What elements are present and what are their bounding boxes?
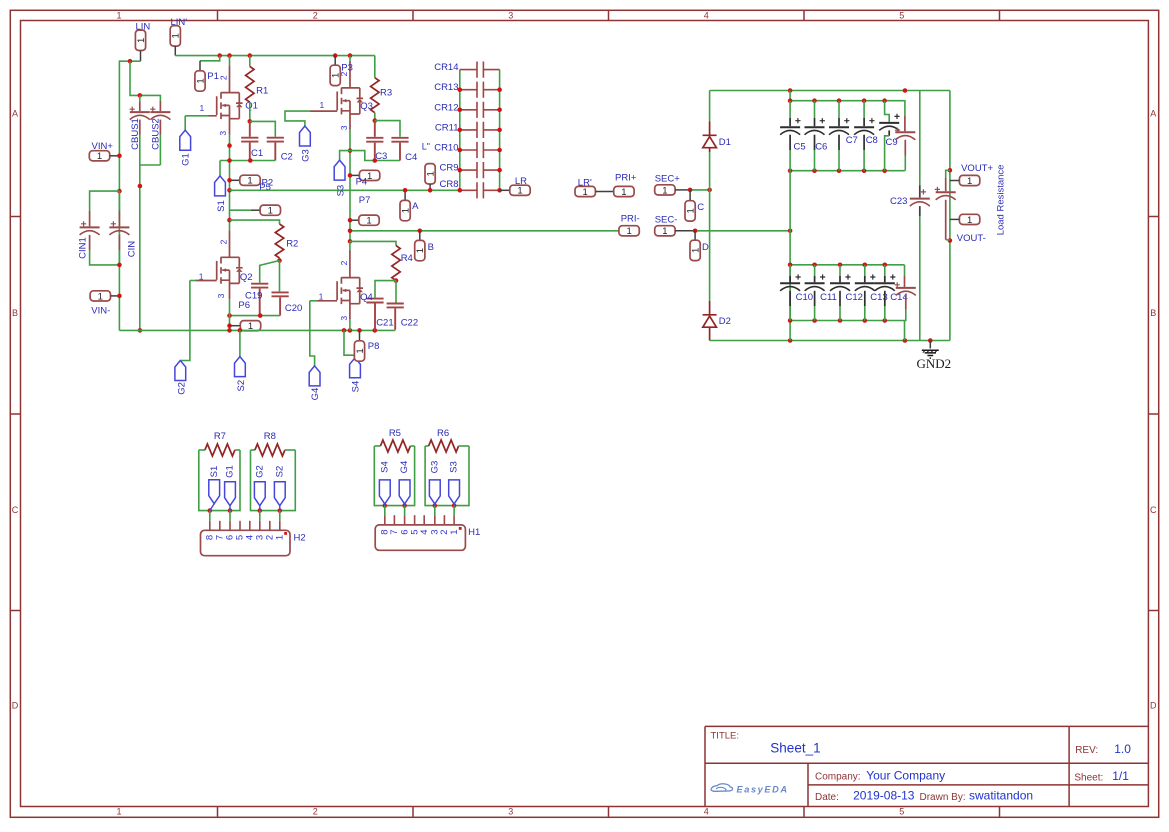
port LR' [575, 186, 595, 198]
svg-text:G4: G4 [399, 461, 410, 474]
wire right rail [949, 91, 951, 341]
junction [342, 328, 347, 333]
junction [278, 508, 283, 513]
svg-text:1: 1 [320, 100, 325, 110]
wire C3 C4 bottom [350, 151, 400, 161]
junction [452, 503, 457, 508]
wire [251, 449, 255, 451]
svg-text:C2: C2 [281, 152, 293, 163]
svg-text:A: A [12, 109, 18, 119]
junction [227, 178, 232, 183]
junction [402, 503, 407, 508]
net flag G1 [184, 116, 186, 130]
svg-text:S2: S2 [236, 380, 247, 392]
wire rectifier mid [709, 190, 711, 301]
net flag G3 [300, 126, 311, 146]
junction [458, 188, 463, 193]
net flag G3b [429, 480, 440, 504]
capacitor C2 [250, 121, 275, 136]
junction [348, 148, 353, 153]
svg-text:Load Resistance: Load Resistance [996, 165, 1007, 236]
junction [348, 229, 353, 234]
wire P5 net [230, 189, 460, 191]
capacitor load [946, 170, 950, 178]
wire gate Q3 [285, 111, 311, 126]
junction [788, 88, 793, 93]
junction [497, 188, 502, 193]
junction [228, 508, 233, 513]
svg-text:1: 1 [98, 291, 103, 302]
port P8 [359, 330, 361, 340]
port L" [425, 164, 437, 184]
junction [882, 98, 887, 103]
svg-text:Sheet_1: Sheet_1 [770, 740, 820, 755]
wire Q3 source [349, 130, 351, 242]
svg-text:C6: C6 [815, 142, 827, 153]
net flag G2b [254, 482, 265, 506]
port SEC+ [655, 185, 675, 197]
capacitor C1 [249, 121, 251, 136]
junction [403, 188, 408, 193]
svg-text:P1: P1 [207, 71, 219, 82]
svg-text:S1: S1 [209, 466, 220, 478]
junction [227, 158, 232, 163]
port LIN [135, 30, 147, 50]
junction [373, 158, 378, 163]
svg-text:EasyEDA: EasyEDA [737, 785, 789, 795]
junction [788, 98, 793, 103]
svg-text:1: 1 [662, 226, 667, 237]
svg-text:1: 1 [449, 529, 460, 534]
junction [227, 188, 232, 193]
svg-text:P6: P6 [238, 300, 250, 311]
junction [458, 108, 463, 113]
svg-text:S3: S3 [336, 185, 347, 197]
svg-text:2: 2 [313, 807, 318, 817]
svg-text:Company:: Company: [815, 771, 861, 782]
junction [227, 218, 232, 223]
wire CR stack left rail [459, 70, 461, 191]
svg-text:1: 1 [401, 208, 412, 213]
capacitor C8 [863, 101, 865, 118]
svg-text:1: 1 [319, 292, 324, 302]
svg-text:1: 1 [367, 171, 372, 182]
svg-text:C21: C21 [376, 317, 393, 328]
port P3 [334, 56, 336, 66]
junction [948, 168, 953, 173]
wire CBUS join [140, 164, 161, 166]
svg-text:1: 1 [366, 216, 371, 227]
svg-text:CR10: CR10 [434, 143, 458, 154]
capacitor C19 [260, 261, 280, 283]
wire PRI- net [350, 230, 619, 232]
svg-text:C4: C4 [405, 152, 417, 163]
pin 1 [453, 506, 455, 516]
junction [373, 118, 378, 123]
svg-text:1: 1 [195, 78, 206, 83]
svg-text:1: 1 [686, 208, 697, 213]
svg-text:VIN-: VIN- [91, 306, 110, 317]
svg-text:D: D [12, 701, 19, 711]
junction [248, 158, 253, 163]
svg-text:Q1: Q1 [245, 101, 258, 112]
junction [238, 328, 243, 333]
junction [138, 184, 143, 189]
junction [227, 313, 232, 318]
junction [208, 508, 213, 513]
junction [693, 229, 698, 234]
svg-text:1: 1 [331, 73, 342, 78]
svg-text:1: 1 [621, 187, 626, 198]
junction [948, 238, 953, 243]
junction [863, 318, 868, 323]
header H2 [201, 530, 291, 555]
svg-text:2019-08-13: 2019-08-13 [853, 788, 915, 802]
net flag S2 [239, 330, 241, 356]
pin 4 [249, 521, 251, 531]
junction [688, 188, 693, 193]
pin 6 [404, 506, 406, 516]
port P6 [230, 325, 241, 327]
svg-text:S4: S4 [350, 381, 361, 393]
svg-text:S3: S3 [449, 461, 460, 473]
capacitor CR8 [460, 189, 477, 191]
wire Q4 source [349, 320, 351, 331]
svg-text:B: B [1150, 308, 1156, 318]
wire [425, 445, 429, 447]
junction [497, 108, 502, 113]
svg-text:S2: S2 [274, 466, 285, 478]
svg-text:G4: G4 [310, 388, 321, 401]
svg-text:1: 1 [116, 807, 121, 817]
svg-text:3: 3 [508, 10, 513, 20]
svg-text:Q2: Q2 [240, 272, 253, 283]
net flag G4 [310, 301, 315, 366]
port P7 [350, 219, 359, 221]
junction [227, 143, 232, 148]
capacitor C14 [884, 265, 886, 276]
port P2 [230, 179, 240, 181]
junction [428, 188, 433, 193]
junction [928, 338, 933, 343]
svg-text:1: 1 [268, 206, 273, 217]
svg-text:L": L" [422, 142, 430, 152]
net flag S4 [344, 330, 355, 357]
wire SEC- to cap midpoint [695, 230, 790, 232]
svg-text:G2: G2 [254, 465, 265, 478]
junction [788, 263, 793, 268]
wire CR stack right rail [499, 70, 501, 191]
svg-text:D: D [1150, 701, 1157, 711]
svg-text:G2: G2 [176, 382, 187, 395]
capacitor C20 [279, 261, 281, 292]
capacitor C3 [374, 121, 376, 137]
junction [117, 189, 122, 194]
net flag G2 [180, 281, 190, 361]
junction [837, 168, 842, 173]
junction [383, 503, 388, 508]
svg-text:CIN1: CIN1 [78, 237, 89, 259]
capacitor C13 [864, 265, 866, 276]
pin 5 [414, 515, 416, 525]
svg-text:Drawn By:: Drawn By: [920, 792, 966, 803]
ground GND2 [929, 341, 931, 349]
port VIN+ [89, 151, 109, 163]
title block [705, 726, 1148, 806]
svg-text:G3: G3 [429, 461, 440, 474]
junction [227, 53, 232, 58]
svg-text:VOUT-: VOUT- [957, 233, 986, 244]
junction [788, 318, 793, 323]
junction [117, 154, 122, 159]
junction [838, 318, 843, 323]
pin 2 [443, 515, 445, 525]
svg-text:5: 5 [899, 807, 904, 817]
capacitor C12 [839, 265, 841, 276]
svg-text:B: B [12, 308, 18, 318]
svg-text:3: 3 [508, 807, 513, 817]
svg-text:C11: C11 [820, 292, 837, 303]
wire gate Q4 [310, 300, 318, 302]
svg-text:4: 4 [704, 807, 709, 817]
wire [199, 449, 205, 451]
svg-text:C1: C1 [251, 148, 263, 159]
junction [138, 328, 143, 333]
svg-text:R5: R5 [389, 428, 401, 439]
wire snubber bottom [230, 315, 281, 317]
capacitor C23 [919, 91, 921, 186]
junction [458, 128, 463, 133]
svg-text:4: 4 [704, 10, 709, 20]
svg-text:1: 1 [662, 185, 667, 196]
svg-text:G1: G1 [225, 465, 236, 478]
junction [458, 168, 463, 173]
svg-text:P3: P3 [341, 62, 353, 73]
capacitor C10 [789, 265, 791, 276]
junction [497, 168, 502, 173]
svg-text:H1: H1 [468, 527, 480, 538]
svg-text:R6: R6 [437, 428, 449, 439]
svg-text:1: 1 [97, 151, 102, 162]
svg-text:1: 1 [275, 535, 286, 540]
junction [812, 318, 817, 323]
wire Q2 source [229, 299, 231, 330]
svg-text:3: 3 [339, 125, 349, 130]
transistor Q1 [229, 56, 231, 66]
capacitor CIN [118, 191, 120, 211]
junction [277, 258, 282, 263]
junction [433, 503, 438, 508]
svg-text:D: D [702, 242, 709, 253]
svg-text:CR9: CR9 [439, 163, 458, 174]
pin 5 [239, 521, 241, 531]
resistor R2 [230, 220, 280, 224]
capacitor CA2 [904, 265, 906, 276]
svg-text:P8: P8 [368, 341, 380, 352]
junction [128, 59, 133, 64]
port P1 [200, 56, 220, 61]
junction [217, 53, 222, 58]
svg-text:1: 1 [415, 248, 426, 253]
junction [863, 263, 868, 268]
svg-text:1: 1 [247, 176, 252, 187]
net flag S1 [219, 161, 221, 176]
wire lower bank to rail [904, 321, 906, 341]
wire [374, 445, 380, 447]
svg-text:REV:: REV: [1075, 745, 1098, 756]
pin 8 [384, 506, 386, 516]
svg-text:TITLE:: TITLE: [711, 731, 740, 742]
resistor R3 [374, 56, 376, 78]
svg-text:Your Company: Your Company [866, 768, 945, 782]
svg-text:1: 1 [200, 103, 205, 113]
svg-text:P5: P5 [259, 182, 271, 193]
transistor Q3 [349, 56, 351, 61]
svg-text:1: 1 [116, 10, 121, 20]
junction [258, 508, 263, 513]
svg-text:1: 1 [199, 272, 204, 282]
svg-text:VOUT+: VOUT+ [961, 163, 993, 174]
svg-text:R3: R3 [380, 88, 392, 99]
junction [812, 98, 817, 103]
junction [788, 168, 793, 173]
junction [838, 263, 843, 268]
svg-text:C: C [1150, 505, 1157, 515]
junction [837, 98, 842, 103]
pin 3 [434, 506, 436, 516]
pin 7 [393, 515, 395, 525]
svg-text:R8: R8 [264, 431, 276, 442]
svg-text:LIN': LIN' [171, 17, 188, 28]
wire top rail [175, 55, 374, 57]
svg-text:4: 4 [419, 529, 430, 534]
junction [707, 188, 712, 193]
junction [348, 173, 353, 178]
svg-text:Date:: Date: [815, 792, 839, 803]
junction [348, 53, 353, 58]
junction [227, 323, 232, 328]
wire output top rail [710, 90, 950, 92]
capacitor CR12 [460, 109, 477, 111]
junction [357, 328, 362, 333]
junction [862, 98, 867, 103]
capacitor C9 [885, 101, 890, 122]
capacitor C7 [838, 101, 840, 118]
pin 4 [423, 515, 425, 525]
net flag S1b [210, 504, 214, 511]
wire SEC+ to rectifier [690, 189, 710, 191]
port LR [500, 189, 510, 191]
logo EasyEDA [711, 784, 733, 792]
net flag S4b [379, 480, 390, 504]
port D [694, 231, 696, 240]
junction [227, 328, 232, 333]
svg-text:2: 2 [313, 10, 318, 20]
junction [248, 53, 253, 58]
port B [419, 231, 421, 241]
port SEC- [655, 226, 675, 238]
wire gate Q2 [190, 280, 197, 282]
svg-text:5: 5 [899, 10, 904, 20]
svg-text:C7: C7 [846, 135, 858, 146]
junction [117, 294, 122, 299]
svg-text:GND2: GND2 [917, 356, 952, 371]
capacitor C21 [375, 281, 396, 298]
svg-text:CBUS1: CBUS1 [130, 118, 141, 150]
port VOUT- [959, 214, 979, 226]
junction [418, 229, 423, 234]
net flag G4b [399, 480, 410, 504]
pin 2 [269, 521, 271, 531]
capacitor CR9 [460, 169, 477, 171]
wire output bottom rail [710, 340, 950, 342]
svg-text:SEC+: SEC+ [655, 173, 681, 184]
svg-text:C22: C22 [401, 317, 418, 328]
svg-text:PRI-: PRI- [621, 214, 640, 225]
capacitor C11 [814, 265, 816, 276]
capacitor CR14 [460, 69, 477, 71]
svg-text:R2: R2 [286, 239, 298, 250]
capacitor C5 [789, 101, 791, 118]
svg-text:1: 1 [355, 348, 366, 353]
wire gate Q1 [185, 115, 208, 117]
svg-text:swatitandon: swatitandon [969, 788, 1033, 802]
net flag S3b [449, 480, 460, 504]
svg-text:C12: C12 [846, 292, 863, 303]
diode D2 [709, 301, 711, 315]
svg-text:Q4: Q4 [360, 292, 373, 303]
junction [883, 263, 888, 268]
svg-text:3: 3 [218, 131, 228, 136]
svg-text:R7: R7 [214, 431, 226, 442]
wire bottom rail VIN- [119, 329, 394, 331]
svg-text:VIN+: VIN+ [92, 141, 114, 152]
svg-text:P7: P7 [359, 195, 371, 206]
port LIN' [170, 26, 182, 46]
svg-text:D1: D1 [719, 137, 731, 148]
junction [138, 93, 143, 98]
junction [788, 338, 793, 343]
junction [333, 53, 338, 58]
port VOUT+ [959, 175, 979, 187]
svg-text:1/1: 1/1 [1112, 769, 1129, 783]
svg-text:H2: H2 [294, 532, 306, 543]
resistor R1 [249, 56, 251, 67]
junction [348, 218, 353, 223]
svg-text:CR8: CR8 [439, 179, 458, 190]
junction [812, 168, 817, 173]
port PRI- [619, 226, 639, 238]
svg-text:1: 1 [136, 38, 147, 43]
svg-text:1: 1 [517, 186, 522, 197]
svg-text:A: A [1150, 109, 1156, 119]
wire center column [789, 171, 791, 341]
pin 8 [209, 511, 211, 521]
port PRI+ [614, 186, 634, 198]
capacitor CR13 [460, 89, 477, 91]
capacitor C4 [375, 121, 400, 137]
svg-text:Sheet:: Sheet: [1074, 772, 1103, 783]
wire C1 C2 bottom [220, 160, 275, 162]
net flag S2b [274, 482, 285, 506]
svg-text:C8: C8 [866, 135, 878, 146]
junction [258, 313, 263, 318]
capacitor CIN1 [90, 191, 120, 211]
junction [903, 88, 908, 93]
svg-text:1: 1 [691, 248, 702, 253]
port A [404, 190, 406, 200]
capacitor CR11 [460, 129, 477, 131]
